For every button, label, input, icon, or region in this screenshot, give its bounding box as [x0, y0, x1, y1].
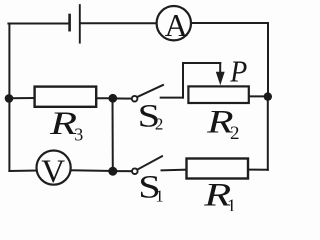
wire left junction to R3	[9, 97, 35, 99]
junction dot left middle	[5, 94, 14, 103]
svg-text:V: V	[41, 154, 65, 190]
wire slider top horizontal	[183, 62, 220, 64]
resistor R3 box	[35, 87, 97, 107]
switch S1 pivot circle	[132, 168, 138, 174]
wire middle vertical junction to junction	[112, 98, 114, 171]
svg-text:1: 1	[227, 196, 236, 212]
wire up from S2 contact	[182, 63, 184, 98]
wire top left to battery	[8, 23, 67, 25]
wire middle junction to S2	[113, 97, 132, 99]
battery short plate (negative)	[68, 15, 71, 30]
wire R2 to right junction	[249, 95, 268, 97]
wire ammeter to top right corner	[191, 22, 268, 24]
svg-text:2: 2	[230, 123, 240, 144]
battery long plate (positive)	[79, 5, 81, 43]
svg-text:3: 3	[74, 125, 83, 145]
junction dot bottom	[108, 167, 117, 176]
svg-text:1: 1	[155, 187, 164, 206]
wire bottom right to R1	[249, 169, 268, 171]
wire S1 right contact to R1	[162, 169, 187, 172]
junction dot right middle	[264, 92, 272, 100]
ammeter A circle	[157, 6, 191, 40]
rheostat slider arrow stem	[219, 63, 221, 74]
svg-text:R: R	[49, 106, 77, 142]
wire right vertical lower	[267, 97, 269, 170]
svg-text:P: P	[229, 54, 247, 89]
wire R3 to middle junction	[96, 97, 113, 99]
wire voltmeter to bottom junction	[71, 169, 113, 172]
wire bottom left to voltmeter	[9, 170, 37, 173]
wire left vertical	[8, 24, 10, 172]
rheostat slider arrowhead	[216, 72, 225, 86]
junction dot after R3	[108, 94, 117, 103]
wire right vertical upper	[267, 23, 269, 97]
wire bottom junction to S1	[113, 170, 132, 172]
wire S2 right contact	[161, 97, 183, 99]
switch S1 lever	[138, 156, 162, 169]
wire battery to ammeter	[81, 22, 158, 24]
resistor R1 box	[187, 159, 249, 179]
voltmeter V circle	[37, 151, 71, 185]
rheostat R2 box	[188, 86, 248, 103]
svg-text:2: 2	[155, 115, 164, 134]
svg-text:A: A	[165, 7, 188, 43]
switch S2 lever	[138, 85, 163, 97]
switch S2 pivot circle	[132, 96, 138, 102]
